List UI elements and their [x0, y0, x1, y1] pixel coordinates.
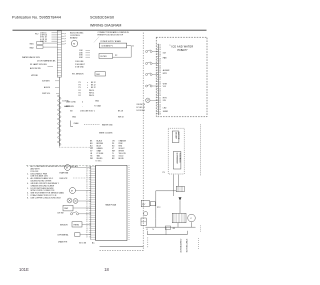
svg-text:COMPRESSOR: COMPRESSOR	[179, 239, 181, 253]
svg-text:AC: AC	[92, 242, 95, 245]
label defrost heater	[60, 178, 91, 180]
svg-text:MTR: MTR	[163, 73, 168, 75]
label TB2	[115, 55, 117, 57]
label row w3	[70, 111, 123, 113]
label row w4	[72, 117, 124, 119]
svg-text:-: -	[82, 105, 83, 107]
svg-text:POWER SUPPLY BOARD: POWER SUPPLY BOARD	[101, 40, 122, 43]
svg-text:FAN: FAN	[163, 56, 167, 59]
svg-text:J6: J6	[86, 215, 88, 217]
svg-text:J7: J7	[159, 75, 161, 77]
svg-text:J6: J6	[159, 91, 161, 93]
wire dashed run	[84, 123, 100, 125]
label row ice mkr	[42, 81, 59, 83]
svg-text:J4: J4	[86, 210, 88, 212]
bracket ground	[71, 121, 74, 127]
notes list	[27, 165, 78, 199]
label ice water pcba	[172, 46, 194, 52]
switch SW2 freezer door	[30, 46, 58, 50]
svg-text:4 BK: 4 BK	[79, 57, 84, 59]
svg-text:P12: P12	[35, 34, 38, 36]
svg-text:J2: J2	[159, 81, 161, 83]
overload OL1 hatched box	[172, 213, 186, 223]
label row w2	[66, 104, 101, 108]
svg-text:TO CAB: TO CAB	[94, 104, 101, 107]
svg-text:P9: P9	[163, 172, 165, 174]
op-amp U1 control module box	[99, 40, 126, 48]
svg-text:VLV: VLV	[163, 86, 167, 88]
svg-text:NO 1 BK: NO 1 BK	[79, 243, 87, 245]
svg-text:RT1 SENSOR: RT1 SENSOR	[72, 73, 84, 75]
svg-text:1: 1	[170, 45, 171, 47]
svg-text:M: M	[71, 191, 73, 193]
svg-text:FILTER: FILTER	[101, 56, 108, 58]
svg-text:P4: P4	[79, 95, 81, 97]
label row w6	[102, 123, 113, 126]
label electronic control	[70, 32, 84, 34]
svg-text:J7: J7	[159, 111, 161, 113]
svg-text:J2: J2	[159, 100, 161, 102]
svg-text:L1: L1	[146, 229, 148, 231]
label below dispenser	[163, 172, 165, 174]
svg-text:DRAIN HTR: DRAIN HTR	[58, 240, 68, 243]
labels left of ice box	[137, 104, 146, 112]
label row htr	[31, 75, 39, 77]
svg-text:DEF BIMETAL: DEF BIMETAL	[58, 234, 69, 237]
dotted door line	[200, 125, 202, 177]
svg-text:LED: LED	[163, 108, 167, 110]
svg-text:J2: J2	[159, 63, 161, 65]
svg-text:LINE CORD: LINE CORD	[66, 101, 76, 103]
resistor R2 defrost box	[95, 72, 106, 76]
svg-text:MAIN PCBA: MAIN PCBA	[106, 204, 117, 207]
svg-text:SW1: SW1	[30, 43, 34, 45]
svg-text:J5: J5	[86, 212, 88, 214]
svg-text:1 BK LINE VOLT 1: 1 BK LINE VOLT 1	[80, 111, 95, 113]
capacitor C1 filter box	[99, 54, 113, 59]
connector J2 ice pcba pin strip	[157, 44, 159, 115]
svg-text:J6: J6	[159, 109, 161, 111]
svg-text:J4: J4	[159, 68, 161, 70]
svg-text:DEF HTR: DEF HTR	[60, 178, 68, 180]
svg-text:4: 4	[82, 101, 83, 103]
pins J4 labels	[86, 166, 91, 238]
row small parts	[146, 226, 176, 231]
label row w5	[74, 122, 80, 125]
svg-text:J6: J6	[86, 195, 88, 197]
svg-text:WIRING DIAGRAM: WIRING DIAGRAM	[90, 24, 121, 28]
svg-text:J3: J3	[86, 208, 88, 210]
svg-text:N: N	[153, 229, 155, 231]
ground bar	[147, 231, 187, 235]
svg-text:BOARD: BOARD	[70, 37, 78, 40]
svg-text:J4: J4	[159, 49, 161, 51]
svg-text:ICE MKR: ICE MKR	[42, 81, 50, 83]
svg-text:WR: WR	[90, 158, 94, 160]
svg-text:WATER VALVE 120V: WATER VALVE 120V	[22, 56, 41, 59]
svg-text:P: P	[65, 36, 66, 38]
svg-text:J4: J4	[86, 171, 88, 173]
svg-text:DOOR HARNESS BK: DOOR HARNESS BK	[37, 60, 56, 63]
svg-text:P: P	[65, 44, 66, 46]
svg-text:GND: GND	[95, 100, 100, 102]
svg-text:J4: J4	[159, 104, 161, 106]
svg-text:J8: J8	[86, 179, 88, 181]
svg-text:J7: J7	[86, 217, 88, 219]
leader to control box	[94, 37, 99, 42]
svg-text:4.: 4.	[27, 183, 29, 185]
pins control left	[79, 50, 90, 59]
svg-text:HTR BK: HTR BK	[31, 75, 39, 77]
svg-text:SERVICE: SERVICE	[66, 106, 75, 108]
label row aug mtr	[44, 86, 59, 89]
svg-text:WIRE CODES: WIRE CODES	[99, 133, 113, 135]
svg-text:J5: J5	[86, 193, 88, 195]
label row disp sol	[42, 93, 59, 95]
svg-text:SW2: SW2	[30, 47, 34, 49]
svg-text:DR SW: DR SW	[58, 212, 64, 214]
wire comp 4	[155, 191, 157, 218]
svg-text:USE COPPER CONDUCTORS ONLY: USE COPPER CONDUCTORS ONLY	[31, 197, 62, 199]
note connector board 2	[98, 35, 124, 37]
section divider dashed	[26, 160, 102, 165]
labels ice pcba internal	[163, 53, 170, 114]
wire comp drop b	[177, 223, 179, 227]
relay K1 box	[141, 200, 149, 207]
label electronic control 3	[70, 37, 78, 40]
svg-text:Publication No. 5995578444: Publication No. 5995578444	[12, 16, 61, 20]
svg-text:J9: J9	[86, 201, 88, 203]
svg-text:J4: J4	[159, 86, 161, 88]
svg-text:J2: J2	[86, 166, 88, 168]
wire filter to J1	[113, 56, 132, 58]
svg-text:FRESH FOOD SECTION TOP: FRESH FOOD SECTION TOP	[98, 35, 124, 37]
header publication number	[12, 16, 61, 20]
legend wire color table	[90, 140, 127, 161]
node cluster P3	[79, 82, 96, 89]
label compressor vert 1	[179, 239, 181, 253]
label row ff lamp	[30, 63, 47, 66]
svg-text:CHAS: CHAS	[74, 122, 80, 125]
label row w1	[66, 100, 100, 103]
svg-text:J7: J7	[86, 197, 88, 199]
wire comp 1	[173, 175, 175, 197]
node cluster P4	[79, 90, 95, 97]
label row aux	[30, 67, 41, 70]
svg-text:RLY: RLY	[142, 204, 146, 206]
svg-text:BK 18: BK 18	[118, 111, 123, 113]
svg-text:HTR: HTR	[163, 97, 167, 99]
footer page number	[104, 267, 109, 272]
wire bottom bus	[100, 246, 144, 248]
pins J3 right stubs	[61, 33, 65, 45]
svg-text:UI BOARD P1: UI BOARD P1	[102, 45, 113, 48]
svg-text:WH 18: WH 18	[118, 117, 124, 119]
ground dashes	[147, 237, 149, 247]
svg-text:J6: J6	[86, 234, 88, 236]
svg-text:J1: J1	[159, 79, 161, 81]
svg-text:J3: J3	[159, 84, 161, 86]
footer page code	[19, 267, 29, 272]
compressor motor M5	[188, 214, 196, 222]
svg-text:3 GN GND: 3 GN GND	[75, 66, 84, 68]
svg-text:J1: J1	[159, 98, 161, 100]
svg-text:MOTOR: MOTOR	[177, 132, 179, 140]
svg-text:J9: J9	[86, 221, 88, 223]
label cable 2	[64, 105, 70, 108]
svg-text:1.: 1.	[27, 166, 29, 168]
label main PCBA	[106, 204, 117, 207]
svg-text:SNSR: SNSR	[163, 111, 169, 113]
switch SW7 arm	[146, 84, 159, 87]
svg-text:J7: J7	[86, 237, 88, 239]
svg-text:101E: 101E	[19, 267, 29, 272]
thermistor RT1 label	[72, 73, 84, 75]
svg-text:AUGER: AUGER	[174, 132, 177, 139]
svg-text:EVAP FAN: EVAP FAN	[60, 171, 69, 174]
svg-text:J5: J5	[159, 88, 161, 90]
svg-text:PTC: PTC	[157, 207, 161, 209]
svg-text:J8: J8	[159, 95, 161, 97]
svg-text:AUG M: AUG M	[44, 86, 50, 89]
svg-text:AUGER: AUGER	[163, 69, 170, 72]
svg-text:J6: J6	[159, 54, 161, 56]
svg-text:DISPENSER: DISPENSER	[175, 153, 177, 165]
svg-text:J2: J2	[86, 206, 88, 208]
svg-text:J2: J2	[159, 45, 161, 47]
connector J4 main pcba pin strip	[91, 166, 96, 240]
motor M1 evaporator fan	[71, 40, 77, 46]
wire harness drop	[58, 77, 60, 95]
svg-text:M: M	[73, 44, 75, 46]
solenoid L1 block	[173, 152, 181, 170]
svg-text:J6: J6	[159, 72, 161, 74]
heater HTR3 box hatched	[176, 186, 184, 192]
svg-text:J2: J2	[86, 226, 88, 228]
dashed cabinet boundary vertical	[142, 33, 144, 251]
svg-text:BK 12: BK 12	[91, 87, 96, 89]
svg-text:FZ LED 18: FZ LED 18	[137, 107, 145, 109]
switch SW4 ice level	[146, 50, 159, 53]
svg-text:GN: GN	[173, 228, 176, 230]
capacitor C2 box	[150, 202, 155, 206]
ice and water PCBA box	[156, 37, 207, 117]
svg-text:C: C	[190, 218, 192, 220]
wire J1 drop	[130, 46, 132, 58]
wire comp drop mid	[165, 227, 167, 234]
wire comp 3	[156, 190, 176, 192]
motor run cap sym	[144, 212, 148, 216]
cable twisted pair to door	[58, 95, 61, 147]
svg-text:DEF: DEF	[96, 74, 100, 76]
svg-text:NO: NO	[70, 111, 73, 113]
svg-text:2.: 2.	[27, 173, 29, 175]
svg-text:J2: J2	[86, 186, 88, 188]
svg-text:FZ SEC: FZ SEC	[96, 160, 103, 162]
pins J3 top labels	[40, 33, 57, 43]
svg-text:THERM: THERM	[73, 225, 79, 227]
svg-text:P3: P3	[79, 87, 81, 89]
svg-text:J1: J1	[159, 61, 161, 63]
switch SW3	[58, 212, 91, 215]
dispenser module box	[168, 128, 184, 174]
svg-text:ICE: ICE	[163, 100, 167, 102]
label drain htr	[58, 240, 68, 243]
connector J3 door harness ladder	[57, 31, 61, 78]
svg-text:5.: 5.	[27, 188, 29, 190]
wire comp drop a	[155, 218, 157, 227]
svg-text:J3: J3	[159, 102, 161, 104]
svg-text:J3: J3	[86, 228, 88, 230]
svg-text:GND: GND	[72, 117, 77, 119]
svg-text:J5: J5	[159, 52, 161, 54]
pins power rows	[75, 61, 86, 68]
svg-text:J5: J5	[159, 70, 161, 72]
svg-text:ICE: ICE	[163, 53, 167, 55]
svg-text:P2: P2	[115, 55, 117, 57]
svg-text:BR: BR	[112, 158, 115, 160]
label row harness	[37, 60, 56, 63]
svg-text:AUX SW RD: AUX SW RD	[30, 67, 41, 70]
diode D1	[179, 197, 182, 213]
svg-text:J9: J9	[86, 182, 88, 184]
svg-text:J8: J8	[86, 219, 88, 221]
label electronic control 2	[70, 35, 81, 37]
switch SW1 fresh food door	[30, 42, 58, 46]
wire cable leader dotted	[59, 146, 93, 148]
node P12 label	[35, 34, 38, 36]
wire comp drop c	[191, 222, 193, 227]
dotted line end	[199, 226, 201, 250]
lamp DS1	[67, 198, 72, 203]
header model number	[90, 16, 114, 20]
svg-text:P: P	[65, 41, 66, 43]
svg-text:J3: J3	[86, 168, 88, 170]
label ptc	[157, 207, 161, 209]
title wire codes	[99, 133, 113, 135]
label M2	[60, 171, 69, 174]
svg-text:J3: J3	[159, 47, 161, 49]
lamp DS3 dispenser	[146, 98, 159, 102]
note connector board	[98, 31, 130, 34]
svg-text:=: =	[87, 87, 88, 89]
svg-text:J3: J3	[159, 65, 161, 67]
svg-text:P: P	[65, 33, 66, 35]
lamp DS2	[73, 199, 91, 204]
wire comp 2	[178, 175, 180, 187]
svg-text:3.: 3.	[27, 178, 29, 180]
switch SW5 dispenser	[146, 62, 159, 65]
svg-text:J8: J8	[159, 77, 161, 79]
svg-text:J5: J5	[86, 232, 88, 234]
label water valve	[22, 56, 41, 59]
svg-text:J8: J8	[159, 114, 161, 116]
thermistor RT2 box	[60, 222, 91, 227]
main PCBA right dashed edge	[128, 165, 130, 240]
label compressor vert 2	[185, 239, 188, 253]
svg-text:18: 18	[104, 267, 109, 272]
dashed cabinet boundary bottom	[100, 250, 144, 252]
svg-text:J1: J1	[132, 45, 134, 47]
motor M2 freezer fan	[65, 165, 91, 171]
svg-text:P: P	[65, 39, 66, 41]
svg-text:SOLENOID: SOLENOID	[178, 153, 180, 163]
header rule	[13, 29, 207, 31]
switch SW6 water	[146, 73, 159, 76]
svg-text:J6: J6	[86, 175, 88, 177]
svg-text:START DEVICE: START DEVICE	[185, 239, 188, 253]
svg-text:FF LAMP 120V WH: FF LAMP 120V WH	[30, 63, 47, 66]
auger motor M4 block	[172, 131, 179, 143]
svg-text:J4: J4	[86, 230, 88, 232]
svg-text:J7: J7	[159, 56, 161, 58]
terminal block TB1	[141, 218, 146, 226]
svg-text:J3: J3	[86, 188, 88, 190]
label bottom bus	[79, 242, 95, 245]
wire control to J1	[127, 45, 132, 47]
svg-text:J1: J1	[86, 184, 88, 186]
svg-text:DISP SOL: DISP SOL	[42, 93, 50, 95]
svg-text:WH 14: WH 14	[89, 95, 94, 97]
node pin1 ice box	[170, 45, 171, 47]
svg-text:DOOR SW: DOOR SW	[137, 110, 146, 112]
svg-text:PCBA P7: PCBA P7	[178, 49, 189, 52]
label cable 1	[63, 101, 70, 103]
pins J2 labels	[159, 45, 161, 116]
heater HTR2	[58, 233, 91, 237]
svg-text:J4: J4	[86, 190, 88, 192]
wire lamp stub	[48, 65, 54, 67]
main control PCBA box	[96, 165, 127, 240]
svg-text:J7: J7	[159, 93, 161, 95]
svg-text:ICE RM 18: ICE RM 18	[137, 104, 145, 106]
wire comp bus	[146, 226, 196, 228]
svg-text:J7: J7	[86, 177, 88, 179]
svg-text:8.: 8.	[27, 197, 29, 199]
svg-text:J1: J1	[86, 204, 88, 206]
motor M3 condenser fan	[70, 188, 91, 194]
svg-text:J5: J5	[159, 107, 161, 109]
svg-text:SENSOR: SENSOR	[60, 224, 68, 226]
header title WIRING DIAGRAM	[90, 24, 121, 28]
svg-text:SCB63C6HS0: SCB63C6HS0	[90, 16, 114, 20]
svg-text:J5: J5	[86, 173, 88, 175]
svg-text:BK-RD: BK-RD	[119, 158, 125, 160]
svg-text:DMP: DMP	[64, 208, 69, 210]
node J1 label	[132, 45, 134, 47]
svg-text:J8: J8	[159, 58, 161, 60]
svg-text:EARTH GND: EARTH GND	[102, 123, 113, 126]
damper A1 box	[63, 205, 91, 211]
